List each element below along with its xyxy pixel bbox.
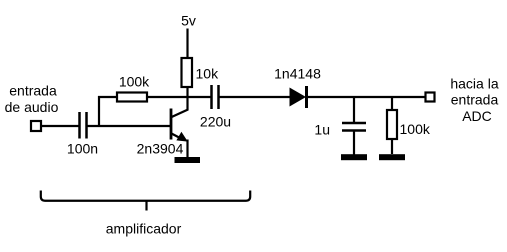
transistor Q1 2n3904 (171, 109, 189, 159)
diode D1 1n4148 (290, 86, 307, 108)
resistor R2 10k (182, 58, 193, 87)
svg-text:1u: 1u (314, 122, 330, 138)
svg-text:entrada: entrada (9, 83, 57, 99)
svg-text:220u: 220u (200, 114, 231, 130)
output terminal node (426, 93, 435, 102)
wire R1 to collector rail (147, 96, 212, 98)
resistor R1 100k (feedback) (117, 93, 147, 102)
svg-text:1n4148: 1n4148 (274, 66, 321, 82)
wire C2 to D1 (219, 96, 291, 98)
resistor R3 100k (load) (387, 96, 397, 154)
svg-text:amplificador: amplificador (106, 221, 182, 237)
svg-text:de audio: de audio (5, 99, 59, 115)
capacitor C3 1u (342, 96, 366, 155)
svg-text:5v: 5v (181, 13, 196, 29)
svg-text:entrada: entrada (451, 92, 499, 108)
wire R2 down through rail to collector (186, 87, 188, 111)
brace (amplifier span) (41, 191, 250, 211)
capacitor C1 100n (80, 112, 87, 139)
svg-text:100k: 100k (119, 74, 150, 90)
svg-text:2n3904: 2n3904 (137, 141, 184, 157)
ground (emitter of Q1) (175, 157, 201, 163)
wire junction up to feedback branch (98, 96, 100, 127)
wire 5v to R2 (186, 29, 188, 60)
wire D1 to output node (307, 96, 425, 98)
svg-text:hacia la: hacia la (450, 76, 498, 92)
capacitor C2 220u (212, 85, 219, 109)
svg-text:100k: 100k (400, 121, 431, 137)
wire C1 to base of Q1 (87, 125, 170, 127)
ground (R3) (379, 154, 405, 160)
svg-text:ADC: ADC (462, 108, 492, 124)
wire input to C1 (41, 125, 79, 127)
svg-text:100n: 100n (67, 141, 98, 157)
svg-text:10k: 10k (196, 66, 220, 82)
input terminal node (31, 121, 41, 131)
ground (C3) (341, 154, 367, 160)
wire to R1 left lead (98, 96, 117, 98)
